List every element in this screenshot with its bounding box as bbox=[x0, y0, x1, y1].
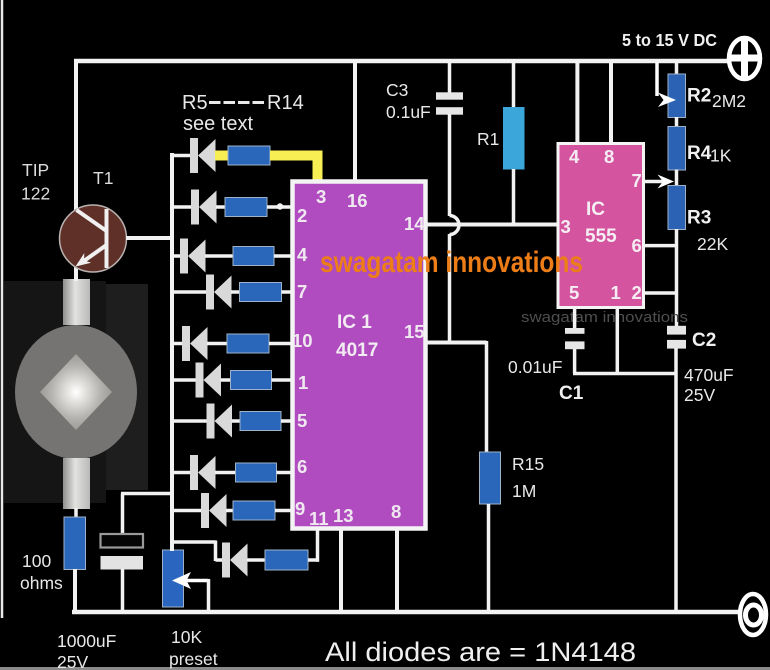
svg-text:4017: 4017 bbox=[336, 340, 378, 361]
svg-text:3: 3 bbox=[316, 186, 326, 207]
svg-text:6: 6 bbox=[297, 456, 307, 477]
svg-text:5: 5 bbox=[297, 410, 307, 431]
svg-text:ohms: ohms bbox=[20, 573, 63, 593]
resistor R15 1M bbox=[480, 452, 501, 504]
wire capacitor bottom to rail bbox=[121, 569, 125, 614]
wire C1 bottom bbox=[573, 349, 577, 374]
svg-text:IC: IC bbox=[586, 199, 605, 220]
svg-text:13: 13 bbox=[333, 505, 354, 526]
diode D3 and resistor row pin 4 bbox=[170, 239, 294, 274]
svg-text:R5: R5 bbox=[182, 92, 208, 114]
svg-text:All diodes are = 1N4148: All diodes are = 1N4148 bbox=[325, 637, 636, 667]
svg-text:11: 11 bbox=[309, 508, 329, 529]
wire top positive rail bbox=[74, 59, 728, 64]
capacitor C1 0.01uF bbox=[565, 328, 585, 349]
wire R4 to R3 bbox=[675, 170, 679, 187]
svg-text:2: 2 bbox=[632, 282, 642, 303]
svg-text:100: 100 bbox=[22, 551, 51, 571]
negative output terminal bbox=[740, 594, 766, 635]
wire bus jog to bottom diode row bbox=[172, 541, 222, 562]
diode D5 and resistor row pin 10 bbox=[170, 326, 294, 361]
label 100 ohms bbox=[20, 551, 63, 593]
svg-text:2M2: 2M2 bbox=[712, 91, 746, 111]
IC U1 4017 body bbox=[293, 182, 426, 529]
svg-text:25V: 25V bbox=[684, 385, 715, 405]
svg-text:3: 3 bbox=[561, 216, 571, 237]
svg-text:R1: R1 bbox=[477, 129, 499, 149]
left border line bbox=[1, 0, 4, 618]
wire R15 to rail bbox=[487, 504, 491, 614]
wire 555 pin6 to C2 net bbox=[643, 244, 678, 248]
wire R2 to R4 bbox=[675, 117, 679, 127]
diode D8 and resistor row pin 6 bbox=[170, 455, 294, 490]
diode D6 and resistor row pin 1 bbox=[170, 363, 294, 398]
R2 wiper arrow bbox=[657, 62, 676, 107]
wire R1 top lead bbox=[512, 59, 516, 108]
junction dot pin2 stub bbox=[277, 203, 283, 209]
resistor R2 2M2 preset bbox=[668, 74, 686, 118]
diode D1 and resistor row pin 3 bbox=[170, 138, 318, 184]
wire resistor to bottom rail bbox=[73, 569, 77, 614]
wire capacitor top lead bbox=[121, 494, 174, 536]
wire pin 8 to rail bbox=[395, 528, 399, 614]
svg-text:9: 9 bbox=[295, 498, 305, 519]
diode D2 and resistor row pin 2 bbox=[170, 190, 294, 225]
wire 555 pin1 down bbox=[616, 307, 620, 374]
motor shaft lower bbox=[63, 458, 90, 509]
label 1000uF 25V bbox=[57, 631, 116, 670]
svg-text:0.1uF: 0.1uF bbox=[386, 102, 431, 122]
svg-text:TIP: TIP bbox=[22, 160, 49, 180]
svg-text:5 to 15 V DC: 5 to 15 V DC bbox=[622, 30, 717, 50]
label T1 bbox=[93, 168, 113, 188]
diode D7 and resistor row pin 5 bbox=[170, 404, 294, 439]
svg-text:R15: R15 bbox=[512, 454, 544, 474]
svg-text:1K: 1K bbox=[710, 146, 732, 166]
motor shaft upper bbox=[63, 279, 90, 325]
svg-text:C1: C1 bbox=[559, 383, 584, 404]
resistor R3 22K bbox=[668, 186, 686, 230]
wire 555 pin8 to rail bbox=[609, 59, 613, 145]
wire transistor emitter to motor bbox=[74, 266, 78, 281]
svg-text:7: 7 bbox=[632, 170, 642, 191]
label 0.01uF C1 bbox=[508, 357, 584, 404]
svg-text:10K: 10K bbox=[171, 627, 202, 647]
wire R3 down to C2 net bbox=[675, 229, 679, 327]
capacitor C2 470uF bbox=[667, 326, 686, 349]
motor hub highlight bbox=[40, 354, 112, 430]
svg-text:R3: R3 bbox=[687, 208, 711, 229]
svg-text:T1: T1 bbox=[93, 168, 113, 188]
transistor T1 TIP122 bbox=[60, 205, 127, 272]
label see text bbox=[183, 113, 253, 135]
wire pin 11 riser bbox=[316, 528, 320, 562]
svg-text:R4: R4 bbox=[687, 143, 712, 164]
capacitor 1000uF 25V bbox=[101, 534, 144, 570]
svg-text:2: 2 bbox=[297, 205, 307, 226]
diode D9 and resistor row pin 9 bbox=[170, 493, 294, 528]
caption all diodes bbox=[325, 637, 636, 667]
svg-text:8: 8 bbox=[604, 146, 614, 167]
wire C3 bottom with hop over pin14 wire bbox=[450, 114, 460, 344]
svg-text:0.01uF: 0.01uF bbox=[508, 357, 562, 377]
svg-text:R14: R14 bbox=[267, 92, 304, 114]
svg-text:555: 555 bbox=[585, 226, 617, 247]
grey watermark bbox=[521, 309, 688, 326]
diode common bus bbox=[170, 153, 174, 551]
wire IC1 pin14 to 555 pin3 bbox=[425, 223, 558, 227]
label 10K preset bbox=[169, 627, 218, 669]
wire C3 top lead bbox=[448, 59, 452, 93]
resistor 100 ohms bbox=[64, 517, 86, 570]
svg-text:7: 7 bbox=[297, 281, 307, 302]
svg-text:C3: C3 bbox=[386, 80, 408, 100]
svg-text:5: 5 bbox=[569, 282, 579, 303]
wire left vertical from top rail to transistor collector bbox=[74, 59, 78, 210]
svg-text:4: 4 bbox=[569, 146, 580, 167]
label R2 2M2 bbox=[687, 86, 746, 112]
svg-text:1000uF: 1000uF bbox=[57, 631, 116, 651]
capacitor C3 0.1uF bbox=[436, 92, 463, 114]
label R3 22K bbox=[687, 208, 728, 255]
svg-text:R2: R2 bbox=[687, 86, 711, 107]
label R4 1K bbox=[687, 143, 732, 166]
svg-text:14: 14 bbox=[404, 213, 425, 234]
wire 555 pin4 to rail bbox=[575, 59, 579, 145]
svg-text:preset: preset bbox=[169, 649, 218, 669]
svg-text:8: 8 bbox=[391, 501, 401, 522]
svg-text:470uF: 470uF bbox=[684, 365, 734, 385]
resistor R1 bbox=[503, 107, 525, 170]
wire R1 bottom lead bbox=[512, 169, 516, 226]
IC1 pin number labels bbox=[292, 186, 425, 529]
svg-text:1: 1 bbox=[611, 282, 621, 303]
wire IC1 pin15 to R15 bbox=[425, 341, 487, 453]
resistor R4 1K bbox=[668, 127, 686, 171]
wire preset wiper to rail bbox=[207, 579, 211, 614]
wire pin 16 to top rail bbox=[353, 61, 357, 182]
IC U2 555 body bbox=[558, 144, 644, 308]
svg-text:see text: see text bbox=[183, 113, 253, 135]
motor background panel bbox=[4, 281, 148, 503]
preset 10K body bbox=[163, 550, 184, 607]
svg-text:4: 4 bbox=[297, 244, 308, 265]
label TIP 122 bbox=[21, 160, 50, 204]
wire C2 to bottom rail bbox=[674, 348, 678, 614]
svg-text:15: 15 bbox=[404, 321, 425, 342]
label R15 1M bbox=[512, 454, 544, 501]
label IC 555 bbox=[585, 199, 617, 247]
diode D10 and resistor row pin 11 bbox=[222, 543, 319, 578]
wire R2 top lead bbox=[675, 59, 679, 75]
svg-text:6: 6 bbox=[632, 235, 642, 256]
preset wiper arrow bbox=[172, 572, 209, 589]
label C2 470uF 25V bbox=[684, 330, 734, 405]
svg-text:1M: 1M bbox=[512, 481, 536, 501]
svg-text:122: 122 bbox=[21, 184, 50, 204]
svg-text:C2: C2 bbox=[692, 330, 716, 351]
svg-text:25V: 25V bbox=[57, 652, 88, 670]
diode D4 and resistor row pin 7 bbox=[170, 275, 294, 310]
svg-text:swagatam innovations: swagatam innovations bbox=[320, 246, 583, 279]
svg-text:22K: 22K bbox=[697, 234, 728, 254]
wire 555 pin2 to C2 net bbox=[643, 291, 678, 295]
label 5 to 15 V DC bbox=[622, 30, 717, 50]
label R1 bbox=[477, 129, 499, 149]
positive supply terminal bbox=[729, 38, 760, 79]
motor body bbox=[15, 325, 137, 459]
svg-text:10: 10 bbox=[292, 330, 313, 351]
wire 555 pin7 to divider bbox=[643, 175, 674, 189]
label C3 0.1uF bbox=[386, 80, 431, 122]
svg-text:1: 1 bbox=[298, 372, 308, 393]
wire pin 13 to rail bbox=[339, 528, 343, 614]
wire bottom negative rail bbox=[72, 610, 740, 615]
wire motor to resistor bbox=[74, 508, 78, 518]
wire C1 C2 bottom junction bbox=[573, 372, 677, 376]
svg-text:swagatam innovations: swagatam innovations bbox=[521, 309, 688, 326]
wire transistor base to diode bus bbox=[126, 236, 172, 240]
bottom edge line bbox=[0, 667, 770, 670]
svg-text:16: 16 bbox=[347, 190, 368, 211]
label IC 1 4017 bbox=[336, 312, 378, 361]
IC555 pin number labels bbox=[561, 146, 642, 303]
wire 555 pin5 to C1 bbox=[573, 307, 577, 329]
orange watermark swagatam innovations bbox=[320, 246, 583, 279]
svg-text:IC 1: IC 1 bbox=[337, 312, 372, 333]
